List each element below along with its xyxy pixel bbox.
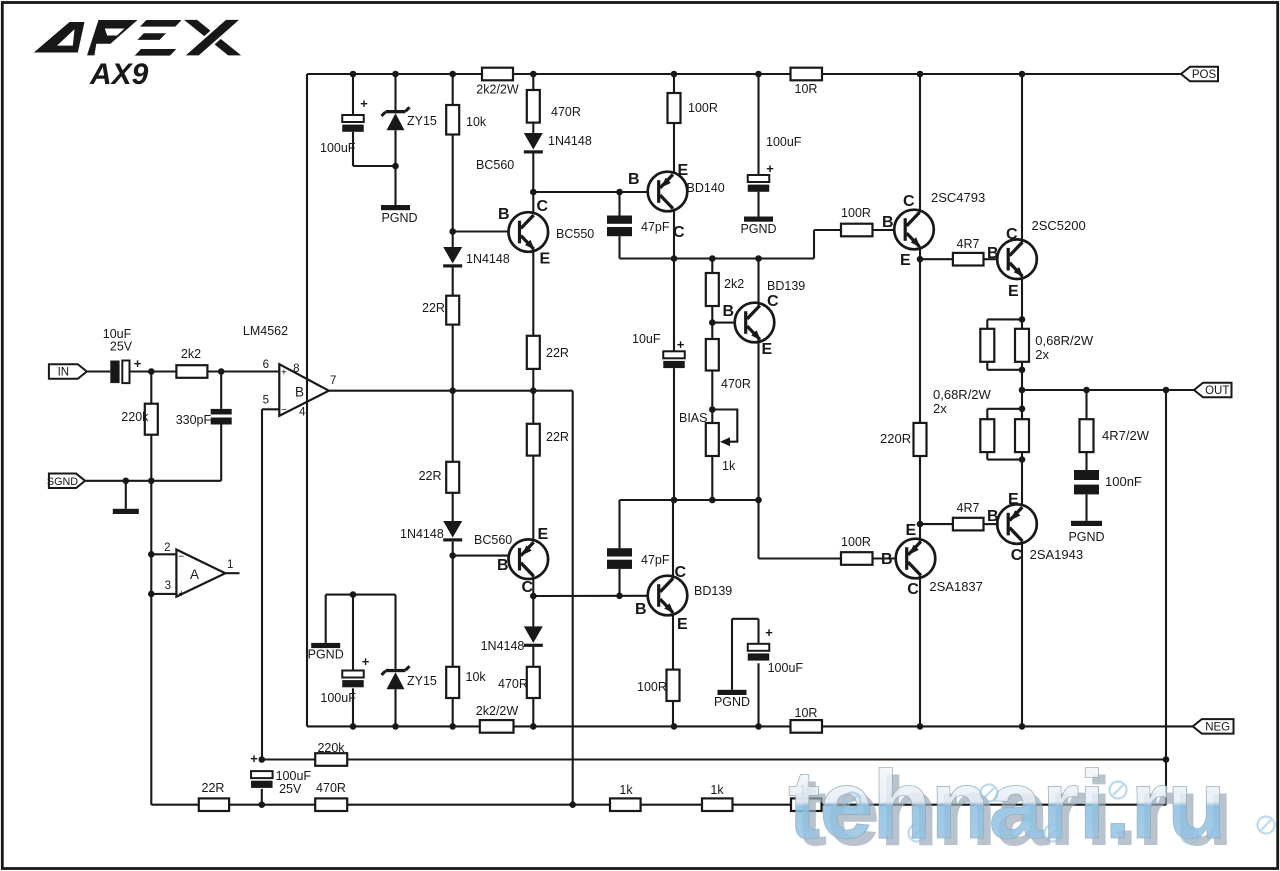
wire BC550 collector to BD140 base	[533, 191, 647, 193]
wire BD140 collector to 10uF	[673, 259, 675, 352]
wire feedback to 22R second	[452, 391, 454, 462]
port OUT	[1194, 383, 1232, 398]
wire ballast lower top bar	[987, 408, 1022, 410]
svg-text:100R: 100R	[688, 101, 718, 115]
svg-text:220k: 220k	[317, 741, 345, 755]
svg-text:1: 1	[227, 559, 233, 571]
wire ballast upper left rise	[986, 362, 988, 370]
wire BD139 upper emitter	[757, 339, 759, 500]
svg-text:C: C	[903, 193, 915, 210]
junction 2SC4793 emitter node	[917, 256, 924, 263]
resistor 22R third	[527, 336, 540, 369]
wire VAS upper node line	[620, 257, 815, 259]
resistor 22R feedback	[199, 798, 229, 811]
svg-text:2k2: 2k2	[724, 277, 744, 291]
junction ballast upper top node	[1019, 316, 1026, 323]
wire 1k line segment f	[822, 804, 1167, 806]
junction BC560 collector node	[530, 593, 537, 600]
wire op-amp A pin3 lead	[151, 593, 176, 595]
junction SGND ground node	[123, 478, 130, 485]
svg-text:47pF: 47pF	[641, 220, 670, 234]
wire 220R to 2SA1837 emitter node	[919, 456, 921, 524]
resistor 2k2 input	[176, 365, 207, 378]
svg-text:2: 2	[164, 542, 170, 554]
wire 22R line segment a	[151, 804, 199, 806]
wire POS rail left segment	[307, 73, 482, 75]
zener diode ZY15 bottom	[382, 666, 410, 689]
wire base node to diode	[452, 232, 454, 248]
wire 4R7 to 2SC5200 base	[984, 258, 999, 260]
svg-text:E: E	[678, 162, 689, 179]
resistor 0.68R/2W lower-left	[980, 419, 994, 452]
svg-text:4: 4	[299, 407, 306, 419]
resistor 22R fourth	[527, 424, 540, 456]
wire 100R to 2SC4793 base	[873, 229, 895, 231]
wire NEG rail middle segment	[514, 725, 791, 727]
svg-text:POS: POS	[1192, 69, 1217, 81]
capacitor 47pF lower	[607, 548, 632, 569]
junction feedback column node	[569, 801, 576, 808]
diode 1N4148 upper-left	[443, 247, 462, 268]
wire ZY15 bottom upper lead	[394, 595, 396, 669]
svg-text:22R: 22R	[419, 469, 442, 483]
capacitor 330pF	[211, 409, 232, 425]
resistor 22R second	[446, 462, 459, 493]
resistor 1k first	[610, 798, 641, 811]
wire ballast upper right rise	[1021, 362, 1023, 370]
svg-text:470R: 470R	[551, 105, 581, 119]
svg-text:C: C	[767, 293, 779, 310]
svg-text:6: 6	[263, 359, 269, 371]
wire ZY15 bottom lower lead	[394, 689, 396, 726]
port POS	[1181, 67, 1218, 82]
wire 4R7 to 2SA1943 base	[984, 523, 999, 525]
junction zener node top	[392, 163, 399, 170]
wire OUT feedback vertical	[1165, 390, 1167, 805]
wire op-amp pin8 supply to POS rail	[306, 74, 308, 379]
svg-text:BC550: BC550	[556, 227, 594, 241]
wire ballast upper top bar	[987, 318, 1022, 320]
junction on NEG rail x=1022.0	[1019, 723, 1026, 730]
junction 220k node	[148, 368, 155, 375]
svg-text:10R: 10R	[795, 82, 818, 96]
svg-text:BD139: BD139	[767, 279, 805, 293]
diode 1N4148 top	[524, 133, 543, 154]
resistor 470R bottom	[527, 667, 540, 698]
wire diode to BC550 collector node	[532, 154, 534, 193]
wire ZY15 top upper lead	[394, 74, 396, 110]
wire zobel upper lead	[1085, 390, 1087, 419]
wire ballast upper right drop	[1021, 319, 1023, 328]
wire ballast upper left drop	[986, 319, 988, 328]
resistor 1k third	[791, 798, 822, 811]
ground PGND top-left	[381, 205, 410, 210]
svg-text:2x: 2x	[1035, 347, 1049, 362]
resistor 10R bottom	[791, 720, 823, 733]
svg-text:2k2/2W: 2k2/2W	[476, 704, 519, 718]
resistor 470R top	[527, 90, 540, 123]
junction feedback takeoff node	[1163, 387, 1170, 394]
wire POS rail right segment	[822, 73, 1181, 75]
svg-text:470R: 470R	[721, 377, 751, 391]
svg-text:22R: 22R	[546, 430, 569, 444]
junction BD139 upper emitter node	[755, 497, 762, 504]
resistor 10R top	[791, 68, 823, 81]
op-amp U1B LM4562	[279, 364, 329, 416]
junction on NEG rail x=395.5	[392, 723, 399, 730]
svg-text:2k2: 2k2	[181, 347, 201, 361]
wire ballast lower left rise	[986, 452, 988, 460]
svg-text:B: B	[498, 206, 510, 223]
transistor BC560 lower	[509, 539, 549, 579]
svg-text:ZY15: ZY15	[407, 114, 437, 128]
wire 10k to BC550 base node	[452, 135, 454, 232]
wire base node to 10k bottom	[452, 556, 454, 667]
svg-text:220k: 220k	[121, 410, 149, 424]
resistor 470R feedback	[315, 798, 347, 811]
wire BD139 upper base	[712, 322, 736, 324]
junction on POS rail x=533.3	[530, 71, 537, 78]
junction on NEG rail x=533.3	[530, 723, 537, 730]
junction BD139 upper collector node	[755, 255, 762, 262]
wire corner to 100R drive	[813, 230, 815, 259]
wire 47pF top lower lead	[618, 236, 620, 258]
svg-text:IN: IN	[58, 367, 70, 379]
transistor 2SC5200	[997, 239, 1037, 279]
wire 470R to wiper node	[711, 371, 713, 410]
port IN	[49, 364, 87, 379]
svg-text:OUT: OUT	[1205, 385, 1229, 397]
junction on POS rail x=758.5	[755, 71, 762, 78]
svg-text:AX9: AX9	[89, 58, 149, 91]
svg-text:25V: 25V	[279, 782, 302, 796]
wire feedback to 22R fourth	[532, 391, 534, 424]
svg-text:100uF: 100uF	[276, 769, 312, 783]
capacitor 100uF top-middle	[748, 175, 770, 192]
svg-text:+: +	[360, 96, 368, 111]
wire emitter node down	[757, 500, 759, 559]
transistor BD139 lower	[648, 576, 688, 616]
svg-text:E: E	[762, 341, 773, 358]
svg-text:A: A	[190, 567, 199, 582]
resistor 220R	[914, 423, 927, 456]
wire 100uF bottom-mid to NEG rail	[757, 663, 759, 726]
svg-text:B: B	[635, 601, 647, 618]
svg-text:100R: 100R	[841, 535, 871, 549]
wire wiper node to pot	[711, 410, 713, 424]
wire ballast to OUT node	[1021, 370, 1023, 409]
junction pin3 node	[148, 591, 155, 598]
capacitor 100uF 25V bottom	[251, 771, 272, 788]
svg-text:+: +	[362, 654, 370, 669]
transistor BC550	[509, 212, 549, 252]
svg-text:1N4148: 1N4148	[466, 252, 510, 266]
wire 1k line segment d	[641, 804, 702, 806]
wire 470R line segment c	[347, 804, 610, 806]
junction BD140 collector node	[671, 255, 678, 262]
potentiometer BIAS 1k	[706, 423, 719, 456]
wire 2SA1837 emitter	[919, 524, 921, 542]
svg-text:1N4148: 1N4148	[400, 527, 444, 541]
diode 1N4148 bottom	[524, 626, 543, 647]
junction ballast lower bottom node	[1019, 456, 1026, 463]
svg-text:1N4148: 1N4148	[548, 134, 592, 148]
capacitor 100uF top-left	[342, 115, 364, 132]
junction 47pF top node	[616, 189, 623, 196]
svg-text:PGND: PGND	[308, 648, 344, 662]
wire pin5 column	[261, 409, 263, 759]
wire 2SA1943 collector to NEG	[1021, 541, 1023, 726]
svg-text:−: −	[178, 552, 184, 563]
wire ballast lower right drop	[1021, 409, 1023, 419]
capacitor 47pF top	[607, 216, 632, 237]
wire 220k lower lead	[150, 435, 152, 481]
svg-text:+: +	[677, 337, 685, 352]
svg-text:1k: 1k	[722, 459, 736, 473]
wire 100R top upper lead	[673, 74, 675, 93]
svg-text:B: B	[628, 171, 640, 188]
wire diode to 22R	[452, 268, 454, 296]
wire op-amp A output stub	[225, 572, 239, 574]
junction 2k2 top node	[709, 255, 716, 262]
resistor 100R lower	[667, 670, 680, 701]
svg-text:2k2/2W: 2k2/2W	[476, 83, 519, 97]
resistor 0.68R/2W upper-left	[980, 329, 994, 362]
svg-text:B: B	[987, 245, 999, 262]
resistor 2k2/2W bottom	[480, 720, 514, 733]
wire 100uF top-mid upper lead	[757, 74, 759, 175]
wire 22R third to feedback line	[532, 369, 534, 391]
svg-text:−: −	[281, 405, 287, 416]
wire 2SC4793 emitter	[919, 246, 921, 259]
wire 220k line right	[347, 758, 1166, 760]
svg-text:22R: 22R	[546, 346, 569, 360]
wire POS rail middle segment	[513, 73, 791, 75]
wire 22R second to diode	[452, 493, 454, 521]
wire PGND stem bottom-middle	[731, 619, 733, 690]
resistor 220k feedback	[315, 753, 347, 766]
svg-text:22R: 22R	[202, 781, 225, 795]
svg-text:22R: 22R	[422, 301, 445, 315]
junction on POS rail x=920.0	[917, 71, 924, 78]
svg-text:PGND: PGND	[714, 695, 750, 709]
ground PGND top-middle	[744, 217, 773, 222]
junction 100uF bottom-left node	[350, 591, 357, 598]
svg-text:E: E	[1008, 283, 1019, 300]
junction on NEG rail x=452.7	[449, 723, 456, 730]
wire ballast lower left drop	[986, 409, 988, 419]
wire pin5 lead	[262, 408, 279, 410]
svg-text:BD139: BD139	[694, 584, 732, 598]
wire 100R to BD140 emitter	[673, 123, 675, 175]
junction BD139 upper base node	[709, 319, 716, 326]
wire emitter node to 4R7	[920, 258, 953, 260]
svg-text:E: E	[900, 252, 911, 269]
svg-text:B: B	[497, 557, 509, 574]
svg-text:SGND: SGND	[47, 476, 78, 488]
wire to 100R drive lower	[759, 557, 842, 559]
wire OUT line	[1022, 389, 1194, 391]
junction OUT node	[1019, 387, 1026, 394]
svg-text:4R7/2W: 4R7/2W	[1102, 428, 1150, 443]
svg-text:8: 8	[293, 363, 299, 375]
junction 100uF 25V bottom node	[259, 801, 266, 808]
junction zobel node	[1083, 387, 1090, 394]
junction feedback line right column	[530, 387, 537, 394]
svg-text:+: +	[766, 161, 774, 176]
wire 100R lower to NEG rail	[672, 701, 674, 726]
wire zener node to PGND top-left	[394, 166, 396, 205]
svg-text:C: C	[675, 564, 687, 581]
wire NEG rail left segment	[307, 725, 480, 727]
svg-text:B: B	[295, 385, 304, 400]
wire diode to BC560 base node	[452, 542, 454, 556]
wire supply through op-amp B	[306, 378, 308, 404]
wire BC560 collector to BD139 lower base	[533, 595, 648, 597]
svg-text:+: +	[765, 625, 773, 640]
wire 100uF C top-left upper lead	[352, 74, 354, 115]
junction pin2 node	[148, 551, 155, 558]
junction 47pF lower node	[616, 593, 623, 600]
resistor 10k bottom	[446, 667, 459, 698]
svg-text:10k: 10k	[466, 115, 487, 129]
wire 2SC4793 collector to POS	[919, 74, 921, 213]
wire 100uF bottom-left upper lead	[352, 595, 354, 671]
svg-text:1k: 1k	[619, 783, 633, 797]
wire 2k2 to BD139 base node	[711, 306, 713, 323]
svg-text:10k: 10k	[466, 670, 487, 684]
junction on POS rail x=452.7	[449, 71, 456, 78]
svg-text:100R: 100R	[637, 680, 667, 694]
resistor 220k input	[145, 404, 158, 435]
wire 2k2 upper lead	[711, 259, 713, 274]
wire neg block top line	[326, 594, 396, 596]
wire 100uF top-mid lower lead	[757, 192, 759, 217]
svg-text:4R7: 4R7	[957, 501, 980, 515]
svg-text:B: B	[882, 214, 894, 231]
wire cap to 2k2	[130, 370, 177, 372]
wire 22R to feedback line	[452, 325, 454, 391]
capacitor 100uF bottom-middle	[748, 644, 770, 661]
op-amp U1A LM4562	[176, 550, 225, 597]
resistor 100R top	[668, 93, 681, 123]
wire 2SC5200 collector to POS	[1021, 74, 1023, 242]
wire BC560 collector to diode	[532, 596, 534, 626]
junction 2SA1837 emitter node	[917, 521, 924, 528]
svg-text:0,68R/2W: 0,68R/2W	[933, 387, 992, 402]
svg-text:C: C	[1006, 226, 1018, 243]
ground PGND bottom-left	[311, 643, 340, 648]
wire NEG rail right segment	[822, 725, 1193, 727]
svg-text:E: E	[906, 522, 917, 539]
wire 10k bottom to NEG rail	[452, 698, 454, 726]
wire emitter node to 4R7 lower	[920, 523, 953, 525]
svg-text:E: E	[538, 526, 549, 543]
junction on POS rail x=353.0	[350, 71, 357, 78]
wire 22R line segment b	[229, 804, 315, 806]
wire left column mid	[150, 481, 152, 805]
svg-text:LM4562: LM4562	[243, 324, 288, 338]
port NEG	[1193, 719, 1234, 734]
svg-text:2SA1837: 2SA1837	[929, 579, 983, 594]
wire 100R drive left lead	[814, 229, 841, 231]
wire 10uF to bias bottom line	[673, 368, 675, 500]
wire ballast to 2SA1943 emitter	[1021, 460, 1023, 507]
wire BD139 lower collector	[672, 500, 674, 579]
wire ballast upper bottom bar	[987, 369, 1022, 371]
svg-text:0,68R/2W: 0,68R/2W	[1035, 333, 1094, 348]
svg-text:E: E	[1008, 491, 1019, 508]
junction on NEG rail x=353.0	[350, 723, 357, 730]
svg-text:+: +	[178, 589, 184, 600]
wire 220k line left	[262, 758, 315, 760]
svg-text:3: 3	[165, 580, 171, 592]
junction 330pF node	[218, 368, 225, 375]
svg-text:C: C	[907, 581, 919, 598]
wire elbow to PGND	[732, 618, 759, 620]
svg-text:tehnari.ru: tehnari.ru	[788, 750, 1225, 859]
junction BIAS wiper node	[709, 406, 716, 413]
svg-text:NEG: NEG	[1205, 722, 1230, 734]
APEX logo	[34, 20, 241, 56]
junction ballast lower top node	[1019, 406, 1026, 413]
wire op-amp pin4 supply down	[306, 402, 308, 727]
svg-text:47pF: 47pF	[641, 553, 670, 567]
resistor 4R7/2W zobel	[1080, 419, 1094, 452]
svg-text:100R: 100R	[841, 206, 871, 220]
svg-text:E: E	[677, 616, 688, 633]
wire ZY15 top lower lead	[394, 130, 396, 166]
watermark copyright marks	[844, 793, 861, 810]
wire 100uF to zener node	[353, 165, 396, 167]
svg-text:470R: 470R	[498, 677, 528, 691]
ground PGND bottom-middle	[718, 690, 747, 695]
wire 10k top upper lead	[452, 74, 454, 105]
svg-text:10R: 10R	[795, 706, 818, 720]
svg-text:BC560: BC560	[474, 533, 512, 547]
junction on NEG rail x=758.5	[755, 723, 762, 730]
svg-text:4R7: 4R7	[957, 237, 980, 251]
svg-text:PGND: PGND	[381, 211, 417, 225]
svg-text:1N4148: 1N4148	[481, 639, 525, 653]
junction SGND 220k node	[148, 478, 155, 485]
transistor 2SA1837	[896, 539, 936, 579]
junction BC550 base node	[449, 228, 456, 235]
junction BC560 lower base node	[449, 552, 456, 559]
wire 220k upper lead	[150, 372, 152, 404]
wire zobel lower lead	[1085, 494, 1087, 520]
transistor 2SC4793	[894, 210, 934, 250]
capacitor 100uF bottom-left	[342, 671, 364, 688]
junction 10uF bottom node	[671, 497, 678, 504]
wire 47pF lower upper lead	[618, 500, 620, 548]
junction on POS rail x=674.0	[671, 71, 678, 78]
svg-text:100uF: 100uF	[320, 141, 356, 155]
wire 2SC5200 emitter	[1021, 276, 1023, 319]
wire 47pF top upper lead	[618, 192, 620, 216]
wire 1k line segment e	[733, 804, 792, 806]
wire base node to 470R	[711, 323, 713, 339]
resistor 100R drive upper	[841, 224, 873, 237]
svg-text:+: +	[134, 356, 142, 371]
svg-text:PGND: PGND	[1068, 530, 1104, 544]
capacitor 100nF	[1074, 470, 1099, 494]
junction on NEG rail x=674.0	[671, 723, 678, 730]
svg-text:25V: 25V	[110, 340, 133, 354]
wire BD140 collector	[673, 209, 675, 259]
wire bias bottom line	[620, 499, 759, 501]
wire BC560 collector	[532, 576, 534, 596]
